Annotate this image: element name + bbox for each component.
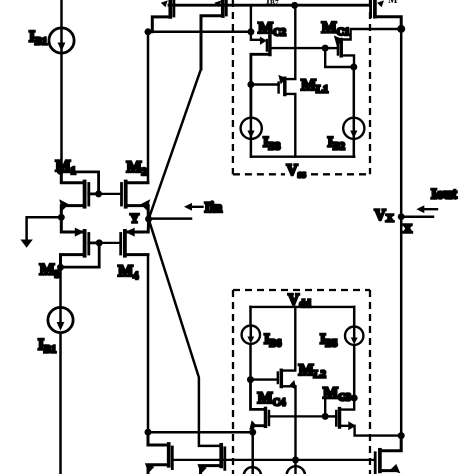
wire diagonal Y to bottom mirror xyxy=(149,219,222,446)
transistor M2 xyxy=(99,182,151,220)
node bottom bus left dot xyxy=(145,429,152,436)
node M1/M3 source dot xyxy=(58,214,65,221)
arrow Iin xyxy=(184,203,203,211)
svg-text:MC2: MC2 xyxy=(258,20,286,38)
svg-text:IB7: IB7 xyxy=(266,0,279,7)
svg-text:M1: M1 xyxy=(56,158,76,177)
svg-text:ML2: ML2 xyxy=(299,362,326,380)
current source bottom-right (cut) xyxy=(287,466,305,474)
svg-text:M4: M4 xyxy=(118,263,139,282)
wire X stub xyxy=(401,215,433,218)
bottom gate bus xyxy=(172,459,375,461)
wire MC2 drain to MC1 gate xyxy=(270,47,325,49)
current source IB3 xyxy=(241,118,262,157)
node bottom X dot xyxy=(398,432,405,439)
node MC1 source dot xyxy=(350,64,357,71)
node ML2 gate dot xyxy=(247,376,254,383)
current source IB1 (bottom) xyxy=(48,307,73,332)
transistor M1 xyxy=(59,171,98,217)
current source IB6 xyxy=(242,307,260,380)
svg-text:M2: M2 xyxy=(127,159,147,178)
node M1 gate dot xyxy=(95,190,102,197)
wire M2 drain column xyxy=(147,32,150,183)
current source IB2 xyxy=(343,67,364,157)
node bus2 left dot xyxy=(145,28,152,35)
wire to bottom current source 1 xyxy=(251,432,254,474)
wire to ground xyxy=(27,217,62,240)
svg-text:M3: M3 xyxy=(40,262,60,281)
dashed box Vdd left edge xyxy=(232,290,234,474)
arrow Iout xyxy=(416,205,437,213)
node top-right junction dot xyxy=(397,25,405,33)
node MC1 gate dot xyxy=(322,45,329,52)
dashed box Vss right edge xyxy=(369,0,371,174)
node MC3/MC4 gate dot xyxy=(322,413,329,420)
node ML1 gate dot xyxy=(247,81,254,88)
node bus2 right dot xyxy=(247,28,254,35)
wire bottom bus xyxy=(148,431,253,434)
svg-text:MC3: MC3 xyxy=(323,385,351,403)
svg-text:MC1: MC1 xyxy=(322,20,350,38)
wire IB1-bottom vertical xyxy=(59,267,62,474)
transistor top-right (cut) xyxy=(371,0,402,29)
top gate bus xyxy=(169,4,371,7)
wire IB1-top vertical xyxy=(60,0,63,171)
svg-text:ML1: ML1 xyxy=(301,77,328,95)
transistor MC2 xyxy=(251,36,270,118)
transistor M4 xyxy=(99,219,148,256)
node bottom bus right dot xyxy=(249,429,256,436)
svg-text:IB1: IB1 xyxy=(38,337,56,356)
node top bus dot xyxy=(291,2,298,9)
wire X column xyxy=(400,29,403,436)
transistor bottom-left-2 (cut) xyxy=(197,445,224,474)
node X dot xyxy=(398,213,405,220)
wire M1 gate-drain wrap xyxy=(60,172,98,194)
svg-text:IB2: IB2 xyxy=(328,135,345,153)
svg-text:IB1: IB1 xyxy=(29,29,47,48)
wire MC3 gate-drain wrap xyxy=(325,398,354,416)
dashed box Vss bottom edge xyxy=(233,173,285,175)
node Y dot xyxy=(145,216,152,223)
svg-text:IB5: IB5 xyxy=(320,332,337,350)
transistor bottom-right (cut) xyxy=(375,436,401,474)
rail Vdd inside box xyxy=(251,306,355,308)
wire M3 gate-drain wrap xyxy=(61,243,100,267)
svg-text:Vss: Vss xyxy=(287,162,306,181)
ground xyxy=(20,240,32,248)
svg-text:Iout: Iout xyxy=(431,187,457,203)
node M3 drain dot xyxy=(57,264,64,271)
transistor MC3 xyxy=(325,398,401,436)
svg-text:IB6: IB6 xyxy=(264,332,281,350)
svg-text:VX: VX xyxy=(375,207,394,225)
node bottom gate bus dot xyxy=(292,456,299,463)
dashed box Vss left edge xyxy=(232,0,234,174)
svg-text:M: M xyxy=(388,0,398,6)
current source IB1 (top) xyxy=(49,28,74,53)
transistor top-left (cut) xyxy=(152,0,174,32)
rail Vss inside box xyxy=(251,155,354,157)
current source IB5 xyxy=(345,307,363,398)
dashed box Vdd right edge xyxy=(369,290,371,474)
wire M4 drain column xyxy=(147,255,150,433)
wire Iin stub xyxy=(149,217,191,220)
transistor top-mid (cut) xyxy=(201,0,226,69)
wire Vss-box left column (from top bus) xyxy=(251,5,261,40)
transistor MC4 xyxy=(249,380,325,433)
node MC3 drain dot xyxy=(351,395,358,402)
svg-text:IB3: IB3 xyxy=(263,135,280,153)
transistor MC1 xyxy=(325,29,401,67)
svg-text:Y: Y xyxy=(130,212,139,226)
svg-text:MC4: MC4 xyxy=(258,390,287,408)
current source bottom-left (cut) xyxy=(244,467,261,474)
wire bus M1-drain to Vss-box xyxy=(148,31,251,34)
transistor bottom-left-1 (cut) xyxy=(145,432,172,474)
transistor ML2 xyxy=(251,307,297,474)
node M3/M4 gate dot xyxy=(96,239,103,246)
dashed box Vdd top edge xyxy=(233,289,370,291)
svg-text:Iin: Iin xyxy=(205,200,223,216)
wire diagonal T2 to Y xyxy=(149,69,201,219)
svg-text:x: x xyxy=(404,218,413,237)
node M1 drain dot xyxy=(57,168,64,175)
transistor M3 xyxy=(61,217,100,267)
transistor ML1 xyxy=(251,5,295,156)
